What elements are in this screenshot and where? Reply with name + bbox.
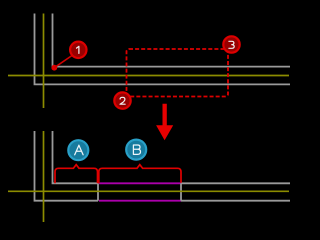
wire right wall top edge — [181, 182, 290, 184]
wire right wall bottom edge — [181, 200, 290, 202]
brace B — [99, 165, 181, 184]
label circle A — [68, 140, 88, 160]
wire bottom wall outer edge — [35, 131, 99, 201]
wire top centerline vertical — [43, 14, 45, 109]
wire leader line 1 — [54, 56, 72, 68]
brace A — [55, 165, 98, 184]
wire magenta opening top — [99, 182, 181, 184]
wire bottom centerline vertical — [43, 131, 45, 222]
wire magenta opening bottom — [99, 200, 181, 202]
wire bottom centerline horizontal — [8, 190, 289, 192]
callout circle 1 — [70, 42, 86, 58]
selection dashed rectangle — [127, 49, 229, 97]
callout circle 2 — [114, 92, 130, 108]
wire top centerline horizontal — [8, 75, 289, 77]
wire bottom wall inner edge — [53, 131, 99, 183]
wire top wall outer edge — [35, 14, 291, 85]
label circle B — [126, 140, 146, 160]
wire wall end cap right — [180, 183, 182, 200]
node inner corner dot — [51, 65, 57, 71]
wire top wall inner edge — [53, 14, 291, 67]
callout circle 3 — [223, 36, 239, 52]
arrow down — [156, 104, 173, 140]
wire wall end cap left — [97, 183, 99, 200]
